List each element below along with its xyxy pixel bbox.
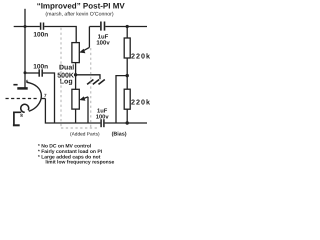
value label Dual 500K Log <box>57 63 74 85</box>
cathode foot bar <box>13 124 20 126</box>
svg-text:100v: 100v <box>96 40 110 47</box>
cathode curl pin 8 <box>21 104 29 112</box>
svg-text:1uF: 1uF <box>98 34 109 41</box>
wire: R2 bottom lead <box>126 109 128 123</box>
value label C4 1uF 100v <box>96 108 110 120</box>
wire: C3 to output end <box>105 26 147 28</box>
svg-text:(marsh, after kevin O'Connor): (marsh, after kevin O'Connor) <box>45 11 113 17</box>
capacitor C2 100n plates <box>39 69 42 76</box>
wire: R2 top lead <box>126 76 128 90</box>
wire: top row from C1 to pot feed corner <box>44 27 76 43</box>
svg-text:220k: 220k <box>131 52 151 61</box>
svg-text:7: 7 <box>44 93 47 98</box>
capacitor C4 1uF plates <box>101 119 104 127</box>
potentiometer VR1a body <box>72 43 79 63</box>
svg-text:Log: Log <box>60 79 73 86</box>
svg-text:100n: 100n <box>33 63 48 70</box>
value label C3 1uF 100v <box>96 34 110 47</box>
wire: R1 bottom lead <box>126 58 128 76</box>
wire: bottom row right segment to bias <box>105 122 147 124</box>
cathode tail <box>14 112 21 125</box>
node: R1/R2 junction <box>126 74 129 77</box>
plate bar pin 6 <box>17 87 27 90</box>
resistor R2 body <box>124 89 130 109</box>
potentiometer VR1b body <box>72 89 79 109</box>
wire: VR1b bottom lead <box>75 109 77 123</box>
node: pot midpoint junction <box>74 73 77 76</box>
node: bus/top-row junction <box>24 25 27 28</box>
svg-text:(Bias): (Bias) <box>112 131 127 137</box>
wiper arrow VR1a <box>79 27 89 54</box>
tube V1 (half 12AX7) <box>6 79 48 125</box>
grid dashed line pin 7 <box>6 98 38 100</box>
wire: VR1a bottom lead to VR1b top lead <box>75 63 77 90</box>
dashed box added parts <box>61 28 98 128</box>
grid dash <box>13 84 17 86</box>
svg-text:100v: 100v <box>96 113 110 120</box>
svg-text:limit low frequency response: limit low frequency response <box>45 160 114 166</box>
svg-text:220k: 220k <box>131 98 151 107</box>
ground (chassis) <box>87 80 105 85</box>
wire: grid exit to pin 7 <box>41 98 46 100</box>
wire: C2 to bottom row <box>43 73 55 123</box>
wire: R1 top lead <box>126 27 128 39</box>
wire: bottom row left segment <box>45 99 100 124</box>
wire: junction to bias riser <box>116 76 127 123</box>
wire: plate bus vertical <box>24 9 26 88</box>
node: bus/second-row junction <box>24 71 27 74</box>
node: R1 top junction <box>126 25 129 28</box>
wire: PI plate stub + top coupling row <box>14 26 40 28</box>
svg-text:100n: 100n <box>33 31 48 38</box>
capacitor C3 1uF plates <box>101 22 105 31</box>
svg-text:(Added Parts): (Added Parts) <box>70 132 100 138</box>
wiper arrow VR1b <box>79 96 88 123</box>
node: R2 bottom junction <box>126 121 129 124</box>
notes bullet list <box>38 144 115 166</box>
svg-text:“Improved” Post-PI MV: “Improved” Post-PI MV <box>37 2 126 11</box>
resistor R1 body <box>124 38 130 58</box>
envelope arc <box>27 82 42 111</box>
capacitor C1 100n plates <box>41 23 44 30</box>
wire: to ground <box>76 75 100 80</box>
wire: top output row <box>89 26 100 28</box>
svg-text:8: 8 <box>20 113 23 118</box>
wire: second coupling row <box>25 72 39 74</box>
